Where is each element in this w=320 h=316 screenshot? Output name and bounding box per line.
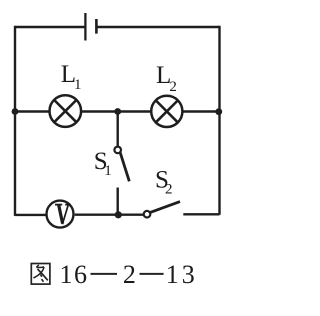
wire lamp row left <box>15 110 49 112</box>
wire top-left segment <box>15 26 85 28</box>
lamp L2 <box>151 96 182 127</box>
switch S2 <box>144 211 151 218</box>
wire right vertical <box>218 26 220 215</box>
svg-text:1: 1 <box>104 163 112 179</box>
voltmeter V <box>47 201 74 228</box>
wire bottom right <box>183 213 219 215</box>
wire bottom left <box>15 214 46 216</box>
node bottom middle <box>115 211 122 218</box>
lamp L1 <box>50 95 82 127</box>
node right lamp row <box>215 108 222 115</box>
wire lamp row middle <box>82 110 150 112</box>
caption character 图 <box>31 264 50 285</box>
battery short plate <box>95 19 98 34</box>
node middle lamp row <box>114 108 121 115</box>
wire top-right segment <box>98 26 220 28</box>
svg-text:2: 2 <box>123 260 136 289</box>
wire left vertical <box>14 26 16 216</box>
battery long plate <box>84 13 86 41</box>
wire lamp row right <box>183 110 219 112</box>
switch S1 <box>114 147 121 154</box>
svg-text:2: 2 <box>165 181 173 197</box>
wire middle branch upper <box>116 112 118 147</box>
svg-text:13: 13 <box>166 260 198 289</box>
wire bottom middle <box>75 213 144 215</box>
node left lamp row <box>12 108 19 115</box>
svg-text:16: 16 <box>60 260 89 289</box>
svg-text:1: 1 <box>74 77 82 93</box>
wire middle branch lower <box>116 188 118 216</box>
svg-text:2: 2 <box>169 79 177 95</box>
